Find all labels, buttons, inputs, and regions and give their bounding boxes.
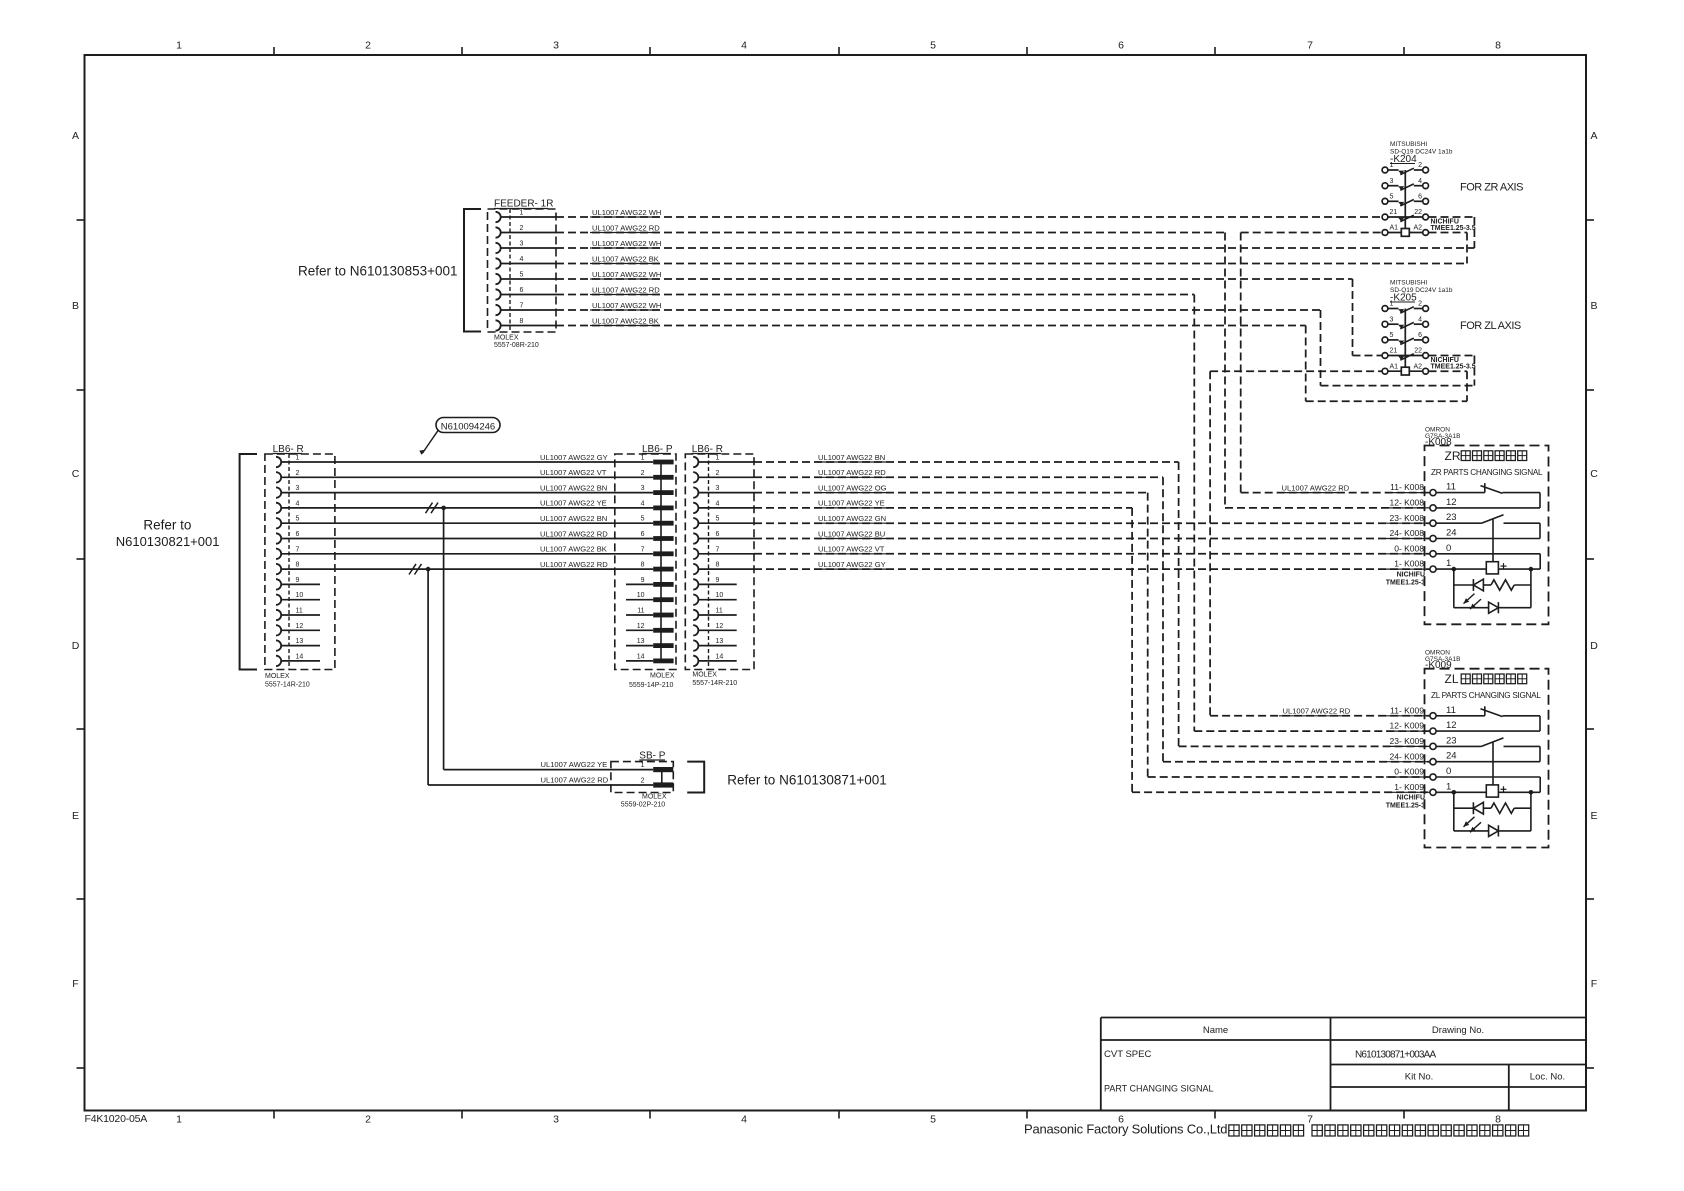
svg-text:6: 6 xyxy=(520,287,524,294)
svg-text:13: 13 xyxy=(296,638,304,645)
svg-text:2: 2 xyxy=(716,470,720,477)
svg-text:11- K009: 11- K009 xyxy=(1390,705,1424,715)
svg-text:7: 7 xyxy=(641,546,645,553)
svg-text:N610094246: N610094246 xyxy=(441,422,495,433)
svg-text:5557-14R-210: 5557-14R-210 xyxy=(692,680,737,687)
svg-text:UL1007 AWG22 BN: UL1007 AWG22 BN xyxy=(818,453,885,462)
svg-text:8: 8 xyxy=(641,562,645,569)
svg-text:23: 23 xyxy=(1446,512,1457,523)
svg-text:12: 12 xyxy=(1446,720,1457,731)
svg-text:MOLEX: MOLEX xyxy=(650,673,675,680)
svg-text:22: 22 xyxy=(1414,209,1422,216)
svg-text:0: 0 xyxy=(1446,766,1451,777)
svg-text:UL1007 AWG22 VT: UL1007 AWG22 VT xyxy=(818,545,885,554)
svg-text:UL1007 AWG22 RD: UL1007 AWG22 RD xyxy=(1282,483,1350,492)
svg-text:6: 6 xyxy=(716,531,720,538)
svg-text:UL1007 AWG22 BK: UL1007 AWG22 BK xyxy=(592,254,659,263)
svg-text:1: 1 xyxy=(716,455,720,462)
svg-text:UL1007 AWG22 RD: UL1007 AWG22 RD xyxy=(592,223,660,232)
svg-text:11: 11 xyxy=(1446,482,1456,493)
svg-text:UL1007 AWG22 GY: UL1007 AWG22 GY xyxy=(818,560,886,569)
svg-text:F: F xyxy=(1591,978,1597,990)
svg-text:MITSUBISHI: MITSUBISHI xyxy=(1390,280,1427,287)
svg-text:UL1007 AWG22 RD: UL1007 AWG22 RD xyxy=(540,560,608,569)
svg-text:8: 8 xyxy=(716,562,720,569)
svg-text:ZL: ZL xyxy=(1445,672,1459,686)
svg-text:1: 1 xyxy=(520,210,524,217)
svg-text:21: 21 xyxy=(1390,209,1398,216)
svg-text:3: 3 xyxy=(553,1114,559,1126)
svg-text:10: 10 xyxy=(296,592,304,599)
svg-text:Drawing No.: Drawing No. xyxy=(1432,1025,1484,1036)
svg-text:2: 2 xyxy=(365,40,371,52)
svg-text:3: 3 xyxy=(716,485,720,492)
svg-text:5: 5 xyxy=(930,1114,936,1126)
svg-text:4: 4 xyxy=(1418,316,1422,323)
svg-text:24- K009: 24- K009 xyxy=(1390,751,1425,761)
svg-text:12- K008: 12- K008 xyxy=(1390,498,1425,508)
svg-text:D: D xyxy=(72,640,80,652)
svg-text:Refer to N610130871+001: Refer to N610130871+001 xyxy=(727,773,887,788)
svg-text:7: 7 xyxy=(716,546,720,553)
svg-text:N610130871+003AA: N610130871+003AA xyxy=(1355,1050,1436,1061)
svg-text:5: 5 xyxy=(1390,194,1394,201)
svg-text:UL1007 AWG22 BK: UL1007 AWG22 BK xyxy=(592,316,659,325)
svg-text:6: 6 xyxy=(641,531,645,538)
svg-text:4: 4 xyxy=(741,1114,747,1126)
svg-text:C: C xyxy=(72,468,80,480)
svg-text:1- K008: 1- K008 xyxy=(1394,559,1424,569)
svg-text:6: 6 xyxy=(1418,332,1422,339)
svg-text:4: 4 xyxy=(1418,178,1422,185)
svg-text:14: 14 xyxy=(637,653,645,660)
svg-text:5: 5 xyxy=(1390,332,1394,339)
svg-text:4: 4 xyxy=(741,40,747,52)
svg-text:MOLEX: MOLEX xyxy=(265,673,290,680)
svg-text:11: 11 xyxy=(1446,705,1456,716)
svg-text:Name: Name xyxy=(1203,1025,1228,1036)
svg-text:8: 8 xyxy=(1495,1114,1501,1126)
svg-text:0- K009: 0- K009 xyxy=(1394,767,1424,777)
svg-text:2: 2 xyxy=(520,225,524,232)
svg-text:UL1007 AWG22 OG: UL1007 AWG22 OG xyxy=(818,483,887,492)
svg-text:F: F xyxy=(72,978,78,990)
svg-text:A2: A2 xyxy=(1413,225,1422,232)
svg-text:UL1007 AWG22 WH: UL1007 AWG22 WH xyxy=(592,239,661,248)
svg-text:E: E xyxy=(72,810,79,822)
svg-text:23- K009: 23- K009 xyxy=(1390,736,1425,746)
svg-text:Refer to: Refer to xyxy=(143,518,191,533)
svg-text:MITSUBISHI: MITSUBISHI xyxy=(1390,141,1427,148)
svg-text:UL1007 AWG22 BN: UL1007 AWG22 BN xyxy=(540,483,607,492)
svg-text:ZR: ZR xyxy=(1445,449,1461,463)
svg-text:1: 1 xyxy=(1446,781,1451,792)
svg-text:8: 8 xyxy=(1495,40,1501,52)
svg-text:14: 14 xyxy=(296,653,304,660)
svg-text:TMEE1.25-3: TMEE1.25-3 xyxy=(1386,803,1425,810)
svg-text:14: 14 xyxy=(716,653,724,660)
svg-text:1- K009: 1- K009 xyxy=(1394,782,1424,792)
svg-text:24: 24 xyxy=(1446,751,1457,762)
svg-text:UL1007 AWG22 YE: UL1007 AWG22 YE xyxy=(540,499,607,508)
svg-text:12: 12 xyxy=(716,623,724,630)
svg-text:UL1007 AWG22 RD: UL1007 AWG22 RD xyxy=(541,776,609,785)
svg-text:Kit No.: Kit No. xyxy=(1405,1072,1434,1083)
svg-text:UL1007 AWG22 WH: UL1007 AWG22 WH xyxy=(592,270,661,279)
svg-text:5557-14R-210: 5557-14R-210 xyxy=(265,682,310,689)
svg-text:NICHIFU: NICHIFU xyxy=(1397,795,1425,802)
svg-text:UL1007 AWG22 RD: UL1007 AWG22 RD xyxy=(818,468,886,477)
svg-text:1: 1 xyxy=(296,455,300,462)
svg-text:12: 12 xyxy=(637,623,645,630)
svg-text:3: 3 xyxy=(1390,178,1394,185)
svg-text:UL1007 AWG22 YE: UL1007 AWG22 YE xyxy=(818,499,885,508)
svg-text:UL1007 AWG22 GY: UL1007 AWG22 GY xyxy=(540,453,608,462)
svg-text:Panasonic Factory Solutions Co: Panasonic Factory Solutions Co.,Ltd xyxy=(1024,1122,1227,1137)
svg-text:FOR ZL AXIS: FOR ZL AXIS xyxy=(1460,320,1521,332)
svg-text:3: 3 xyxy=(296,485,300,492)
svg-text:23: 23 xyxy=(1446,735,1457,746)
svg-text:MOLEX: MOLEX xyxy=(642,794,667,801)
svg-text:12: 12 xyxy=(296,623,304,630)
svg-text:9: 9 xyxy=(296,577,300,584)
svg-text:UL1007 AWG22 RD: UL1007 AWG22 RD xyxy=(592,285,660,294)
svg-text:PART CHANGING SIGNAL: PART CHANGING SIGNAL xyxy=(1104,1084,1214,1094)
svg-text:13: 13 xyxy=(637,638,645,645)
svg-text:B: B xyxy=(72,300,79,312)
svg-text:Loc. No.: Loc. No. xyxy=(1530,1072,1565,1083)
svg-text:4: 4 xyxy=(641,500,645,507)
svg-text:E: E xyxy=(1590,810,1597,822)
svg-text:4: 4 xyxy=(296,500,300,507)
svg-text:11- K008: 11- K008 xyxy=(1390,482,1424,492)
svg-text:F4K1020-05A: F4K1020-05A xyxy=(85,1113,148,1125)
svg-text:TMEE1.25-3.5: TMEE1.25-3.5 xyxy=(1431,225,1476,232)
svg-text:4: 4 xyxy=(716,500,720,507)
svg-text:0- K008: 0- K008 xyxy=(1394,543,1424,553)
svg-text:FOR ZR AXIS: FOR ZR AXIS xyxy=(1460,182,1523,194)
svg-text:24: 24 xyxy=(1446,528,1457,539)
svg-text:3: 3 xyxy=(553,40,559,52)
svg-text:6: 6 xyxy=(1418,194,1422,201)
svg-text:5557-08R-210: 5557-08R-210 xyxy=(494,342,539,349)
svg-text:-K008: -K008 xyxy=(1425,437,1452,448)
svg-text:3: 3 xyxy=(1390,316,1394,323)
svg-text:13: 13 xyxy=(716,638,724,645)
svg-text:5: 5 xyxy=(520,272,524,279)
svg-text:1: 1 xyxy=(176,40,182,52)
svg-text:5: 5 xyxy=(930,40,936,52)
svg-text:UL1007 AWG22 VT: UL1007 AWG22 VT xyxy=(540,468,607,477)
svg-text:7: 7 xyxy=(1307,1114,1313,1126)
svg-text:2: 2 xyxy=(365,1114,371,1126)
svg-text:0: 0 xyxy=(1446,543,1451,554)
svg-text:UL1007 AWG22 BK: UL1007 AWG22 BK xyxy=(540,545,607,554)
svg-text:2: 2 xyxy=(1418,301,1422,308)
svg-text:10: 10 xyxy=(637,592,645,599)
svg-text:5: 5 xyxy=(296,516,300,523)
svg-text:UL1007 AWG22 BN: UL1007 AWG22 BN xyxy=(540,514,607,523)
svg-text:Refer to N610130853+001: Refer to N610130853+001 xyxy=(298,264,458,279)
svg-text:11: 11 xyxy=(716,608,723,615)
svg-text:UL1007 AWG22 RD: UL1007 AWG22 RD xyxy=(1283,707,1351,716)
svg-text:MOLEX: MOLEX xyxy=(494,335,519,342)
svg-text:22: 22 xyxy=(1414,348,1422,355)
svg-text:A: A xyxy=(72,130,79,142)
svg-text:7: 7 xyxy=(1307,40,1313,52)
svg-text:23- K008: 23- K008 xyxy=(1390,513,1425,523)
svg-text:ZR PARTS CHANGING SIGNAL: ZR PARTS CHANGING SIGNAL xyxy=(1431,468,1543,477)
svg-text:-K009: -K009 xyxy=(1425,660,1452,671)
svg-text:UL1007 AWG22 WH: UL1007 AWG22 WH xyxy=(592,208,661,217)
svg-text:9: 9 xyxy=(641,577,645,584)
svg-text:MOLEX: MOLEX xyxy=(692,672,717,679)
svg-text:TMEE1.25-3: TMEE1.25-3 xyxy=(1386,579,1425,586)
svg-text:1: 1 xyxy=(641,762,645,769)
svg-text:6: 6 xyxy=(296,531,300,538)
svg-text:A2: A2 xyxy=(1413,363,1422,370)
svg-text:10: 10 xyxy=(716,592,724,599)
svg-text:21: 21 xyxy=(1390,348,1398,355)
svg-text:11: 11 xyxy=(296,608,303,615)
svg-text:B: B xyxy=(1590,300,1597,312)
svg-text:A: A xyxy=(1590,130,1597,142)
svg-text:UL1007 AWG22 RD: UL1007 AWG22 RD xyxy=(540,529,608,538)
svg-text:1: 1 xyxy=(1446,558,1451,569)
svg-text:5559-02P-210: 5559-02P-210 xyxy=(621,802,665,809)
svg-text:N610130821+001: N610130821+001 xyxy=(116,534,220,549)
svg-text:2: 2 xyxy=(641,778,645,785)
svg-text:UL1007 AWG22 BU: UL1007 AWG22 BU xyxy=(818,529,885,538)
svg-text:9: 9 xyxy=(716,577,720,584)
svg-text:3: 3 xyxy=(520,241,524,248)
svg-text:12- K009: 12- K009 xyxy=(1390,721,1425,731)
svg-text:NICHIFU: NICHIFU xyxy=(1397,571,1425,578)
svg-text:2: 2 xyxy=(641,470,645,477)
svg-text:UL1007 AWG22 YE: UL1007 AWG22 YE xyxy=(541,760,608,769)
svg-text:8: 8 xyxy=(520,318,524,325)
svg-text:11: 11 xyxy=(637,608,644,615)
svg-text:2: 2 xyxy=(296,470,300,477)
svg-text:12: 12 xyxy=(1446,497,1457,508)
svg-text:C: C xyxy=(1590,468,1598,480)
svg-text:6: 6 xyxy=(1118,40,1124,52)
svg-text:A1: A1 xyxy=(1390,225,1399,232)
svg-text:D: D xyxy=(1590,640,1598,652)
svg-text:UL1007 AWG22 WH: UL1007 AWG22 WH xyxy=(592,301,661,310)
svg-text:ZL PARTS CHANGING SIGNAL: ZL PARTS CHANGING SIGNAL xyxy=(1431,691,1541,700)
svg-text:1: 1 xyxy=(641,455,645,462)
svg-text:4: 4 xyxy=(520,256,524,263)
svg-text:24- K008: 24- K008 xyxy=(1390,528,1425,538)
svg-text:7: 7 xyxy=(520,303,524,310)
svg-text:5559-14P-210: 5559-14P-210 xyxy=(629,682,673,689)
svg-text:2: 2 xyxy=(1418,162,1422,169)
svg-text:5: 5 xyxy=(641,516,645,523)
svg-text:5: 5 xyxy=(716,516,720,523)
svg-text:3: 3 xyxy=(641,485,645,492)
svg-text:A1: A1 xyxy=(1390,363,1399,370)
svg-text:TMEE1.25-3.5: TMEE1.25-3.5 xyxy=(1431,363,1476,370)
svg-text:8: 8 xyxy=(296,562,300,569)
svg-text:7: 7 xyxy=(296,546,300,553)
svg-text:1: 1 xyxy=(176,1114,182,1126)
svg-text:UL1007 AWG22 GN: UL1007 AWG22 GN xyxy=(818,514,886,523)
svg-text:CVT SPEC: CVT SPEC xyxy=(1104,1049,1151,1060)
